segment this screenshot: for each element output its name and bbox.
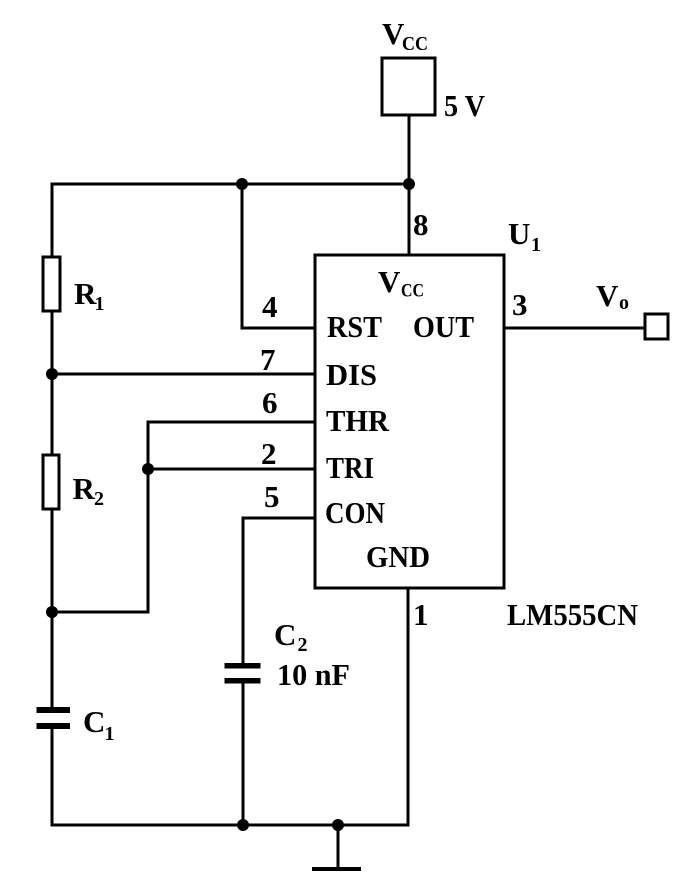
svg-text:5: 5 xyxy=(264,479,280,514)
node junction dot top rail / VCC stub xyxy=(403,178,415,190)
resistor R1 xyxy=(43,257,105,315)
wire DIS pin7 horizontal xyxy=(52,373,315,376)
svg-text:6: 6 xyxy=(262,385,278,420)
op-amp / IC U1 LM555CN body xyxy=(315,255,504,588)
wire pin4 branch vertical xyxy=(241,184,244,330)
svg-text:5 V: 5 V xyxy=(444,88,486,123)
svg-text:C: C xyxy=(274,617,296,652)
node junction dot bottom rail / C2 xyxy=(237,819,249,831)
wire CON pin5 horizontal xyxy=(243,517,315,520)
svg-text:CC: CC xyxy=(401,281,424,302)
svg-text:1: 1 xyxy=(531,234,541,256)
node junction dot bottom rail / ground xyxy=(332,819,344,831)
wire pin4 branch horizontal to RST xyxy=(241,327,316,330)
wire bottom rail xyxy=(52,824,408,827)
ground xyxy=(312,825,361,869)
resistor R2 xyxy=(43,455,104,510)
svg-text:1: 1 xyxy=(413,597,429,632)
svg-text:GND: GND xyxy=(366,539,430,574)
node junction dot top rail / pin4 branch xyxy=(236,178,248,190)
svg-text:C: C xyxy=(83,704,105,739)
svg-text:1: 1 xyxy=(95,293,105,315)
capacitor C1 xyxy=(34,704,115,745)
wire THR pin6 horizontal xyxy=(148,421,315,424)
svg-text:2: 2 xyxy=(261,436,277,471)
output terminal Vo xyxy=(596,278,668,339)
svg-text:THR: THR xyxy=(326,403,390,438)
svg-text:2: 2 xyxy=(298,634,308,656)
svg-text:1: 1 xyxy=(105,723,115,745)
svg-text:2: 2 xyxy=(94,488,104,510)
wire OUT pin3 horizontal xyxy=(504,327,646,330)
designator U1 xyxy=(508,216,541,256)
wire lower horizontal to left rail xyxy=(52,611,148,614)
wire TRI pin2 horizontal xyxy=(148,468,315,471)
capacitor C2 xyxy=(222,617,350,692)
svg-text:7: 7 xyxy=(260,342,276,377)
svg-text:DIS: DIS xyxy=(326,357,377,392)
svg-text:V: V xyxy=(596,278,619,313)
wire top rail from left rail to VCC stub xyxy=(51,183,410,186)
wire THR branch vertical xyxy=(147,421,150,614)
svg-text:4: 4 xyxy=(262,289,278,324)
svg-text:U: U xyxy=(508,216,530,251)
power supply VCC 5V box xyxy=(382,16,486,123)
svg-text:CON: CON xyxy=(325,495,385,530)
wire CON / C2 branch vertical xyxy=(242,517,245,826)
svg-text:RST: RST xyxy=(327,309,382,344)
svg-text:LM555CN: LM555CN xyxy=(507,597,638,632)
svg-text:TRI: TRI xyxy=(326,450,374,485)
svg-text:8: 8 xyxy=(413,207,429,242)
wire left rail vertical xyxy=(51,183,54,827)
node junction dot TRI branch xyxy=(142,463,154,475)
svg-text:R: R xyxy=(73,471,96,506)
svg-text:CC: CC xyxy=(402,33,428,55)
svg-text:o: o xyxy=(619,292,629,314)
svg-text:3: 3 xyxy=(512,287,528,322)
node junction dot left rail lower xyxy=(46,606,58,618)
svg-text:V: V xyxy=(378,264,401,299)
node junction dot left rail / DIS xyxy=(46,368,58,380)
svg-text:OUT: OUT xyxy=(413,309,474,344)
wire GND pin1 vertical xyxy=(407,588,410,827)
wire VCC supply stub vertical xyxy=(408,115,411,255)
svg-text:10 nF: 10 nF xyxy=(277,657,350,692)
